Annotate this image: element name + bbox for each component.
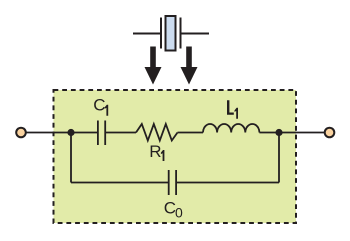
svg-text:C: C — [93, 96, 105, 115]
svg-text:R: R — [149, 142, 161, 161]
svg-text:0: 0 — [175, 204, 183, 220]
